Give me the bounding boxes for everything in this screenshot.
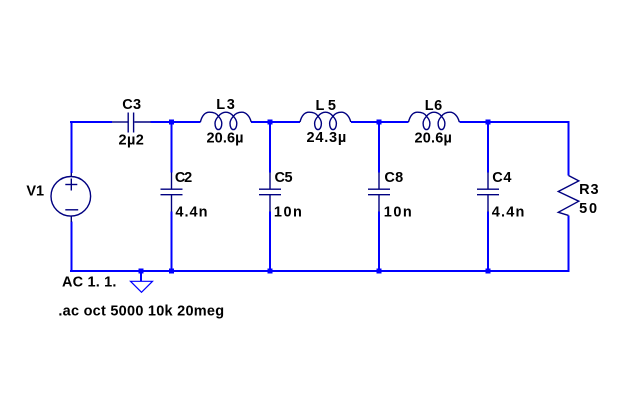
svg-text:C3: C3 bbox=[122, 97, 141, 113]
svg-text:R3: R3 bbox=[579, 182, 599, 198]
svg-text:4.4n: 4.4n bbox=[175, 204, 207, 220]
svg-text:C2: C2 bbox=[175, 170, 192, 186]
svg-text:V1: V1 bbox=[26, 184, 44, 200]
svg-text:24.3µ: 24.3µ bbox=[307, 130, 347, 146]
svg-text:20.6µ: 20.6µ bbox=[415, 130, 452, 146]
svg-text:C4: C4 bbox=[492, 170, 511, 186]
svg-text:C8: C8 bbox=[384, 170, 403, 186]
svg-text:.ac oct 5000 10k 20meg: .ac oct 5000 10k 20meg bbox=[58, 304, 224, 320]
svg-text:L3: L3 bbox=[216, 97, 235, 113]
svg-text:2µ2: 2µ2 bbox=[119, 133, 144, 149]
svg-text:4.4n: 4.4n bbox=[492, 204, 525, 220]
svg-text:10n: 10n bbox=[274, 204, 302, 220]
svg-text:10n: 10n bbox=[384, 204, 412, 220]
svg-text:50: 50 bbox=[579, 201, 597, 217]
svg-text:AC 1. 1.: AC 1. 1. bbox=[62, 274, 116, 290]
svg-text:C5: C5 bbox=[275, 170, 293, 186]
svg-text:L6: L6 bbox=[425, 98, 443, 114]
svg-text:20.6µ: 20.6µ bbox=[207, 130, 244, 146]
